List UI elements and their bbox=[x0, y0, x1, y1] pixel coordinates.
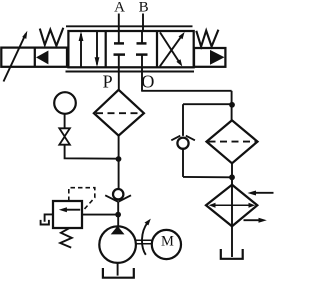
svg-text:O: O bbox=[141, 72, 154, 92]
svg-text:A: A bbox=[114, 0, 125, 16]
svg-text:B: B bbox=[139, 0, 149, 16]
svg-text:P: P bbox=[103, 72, 113, 92]
svg-text:M: M bbox=[161, 233, 174, 249]
